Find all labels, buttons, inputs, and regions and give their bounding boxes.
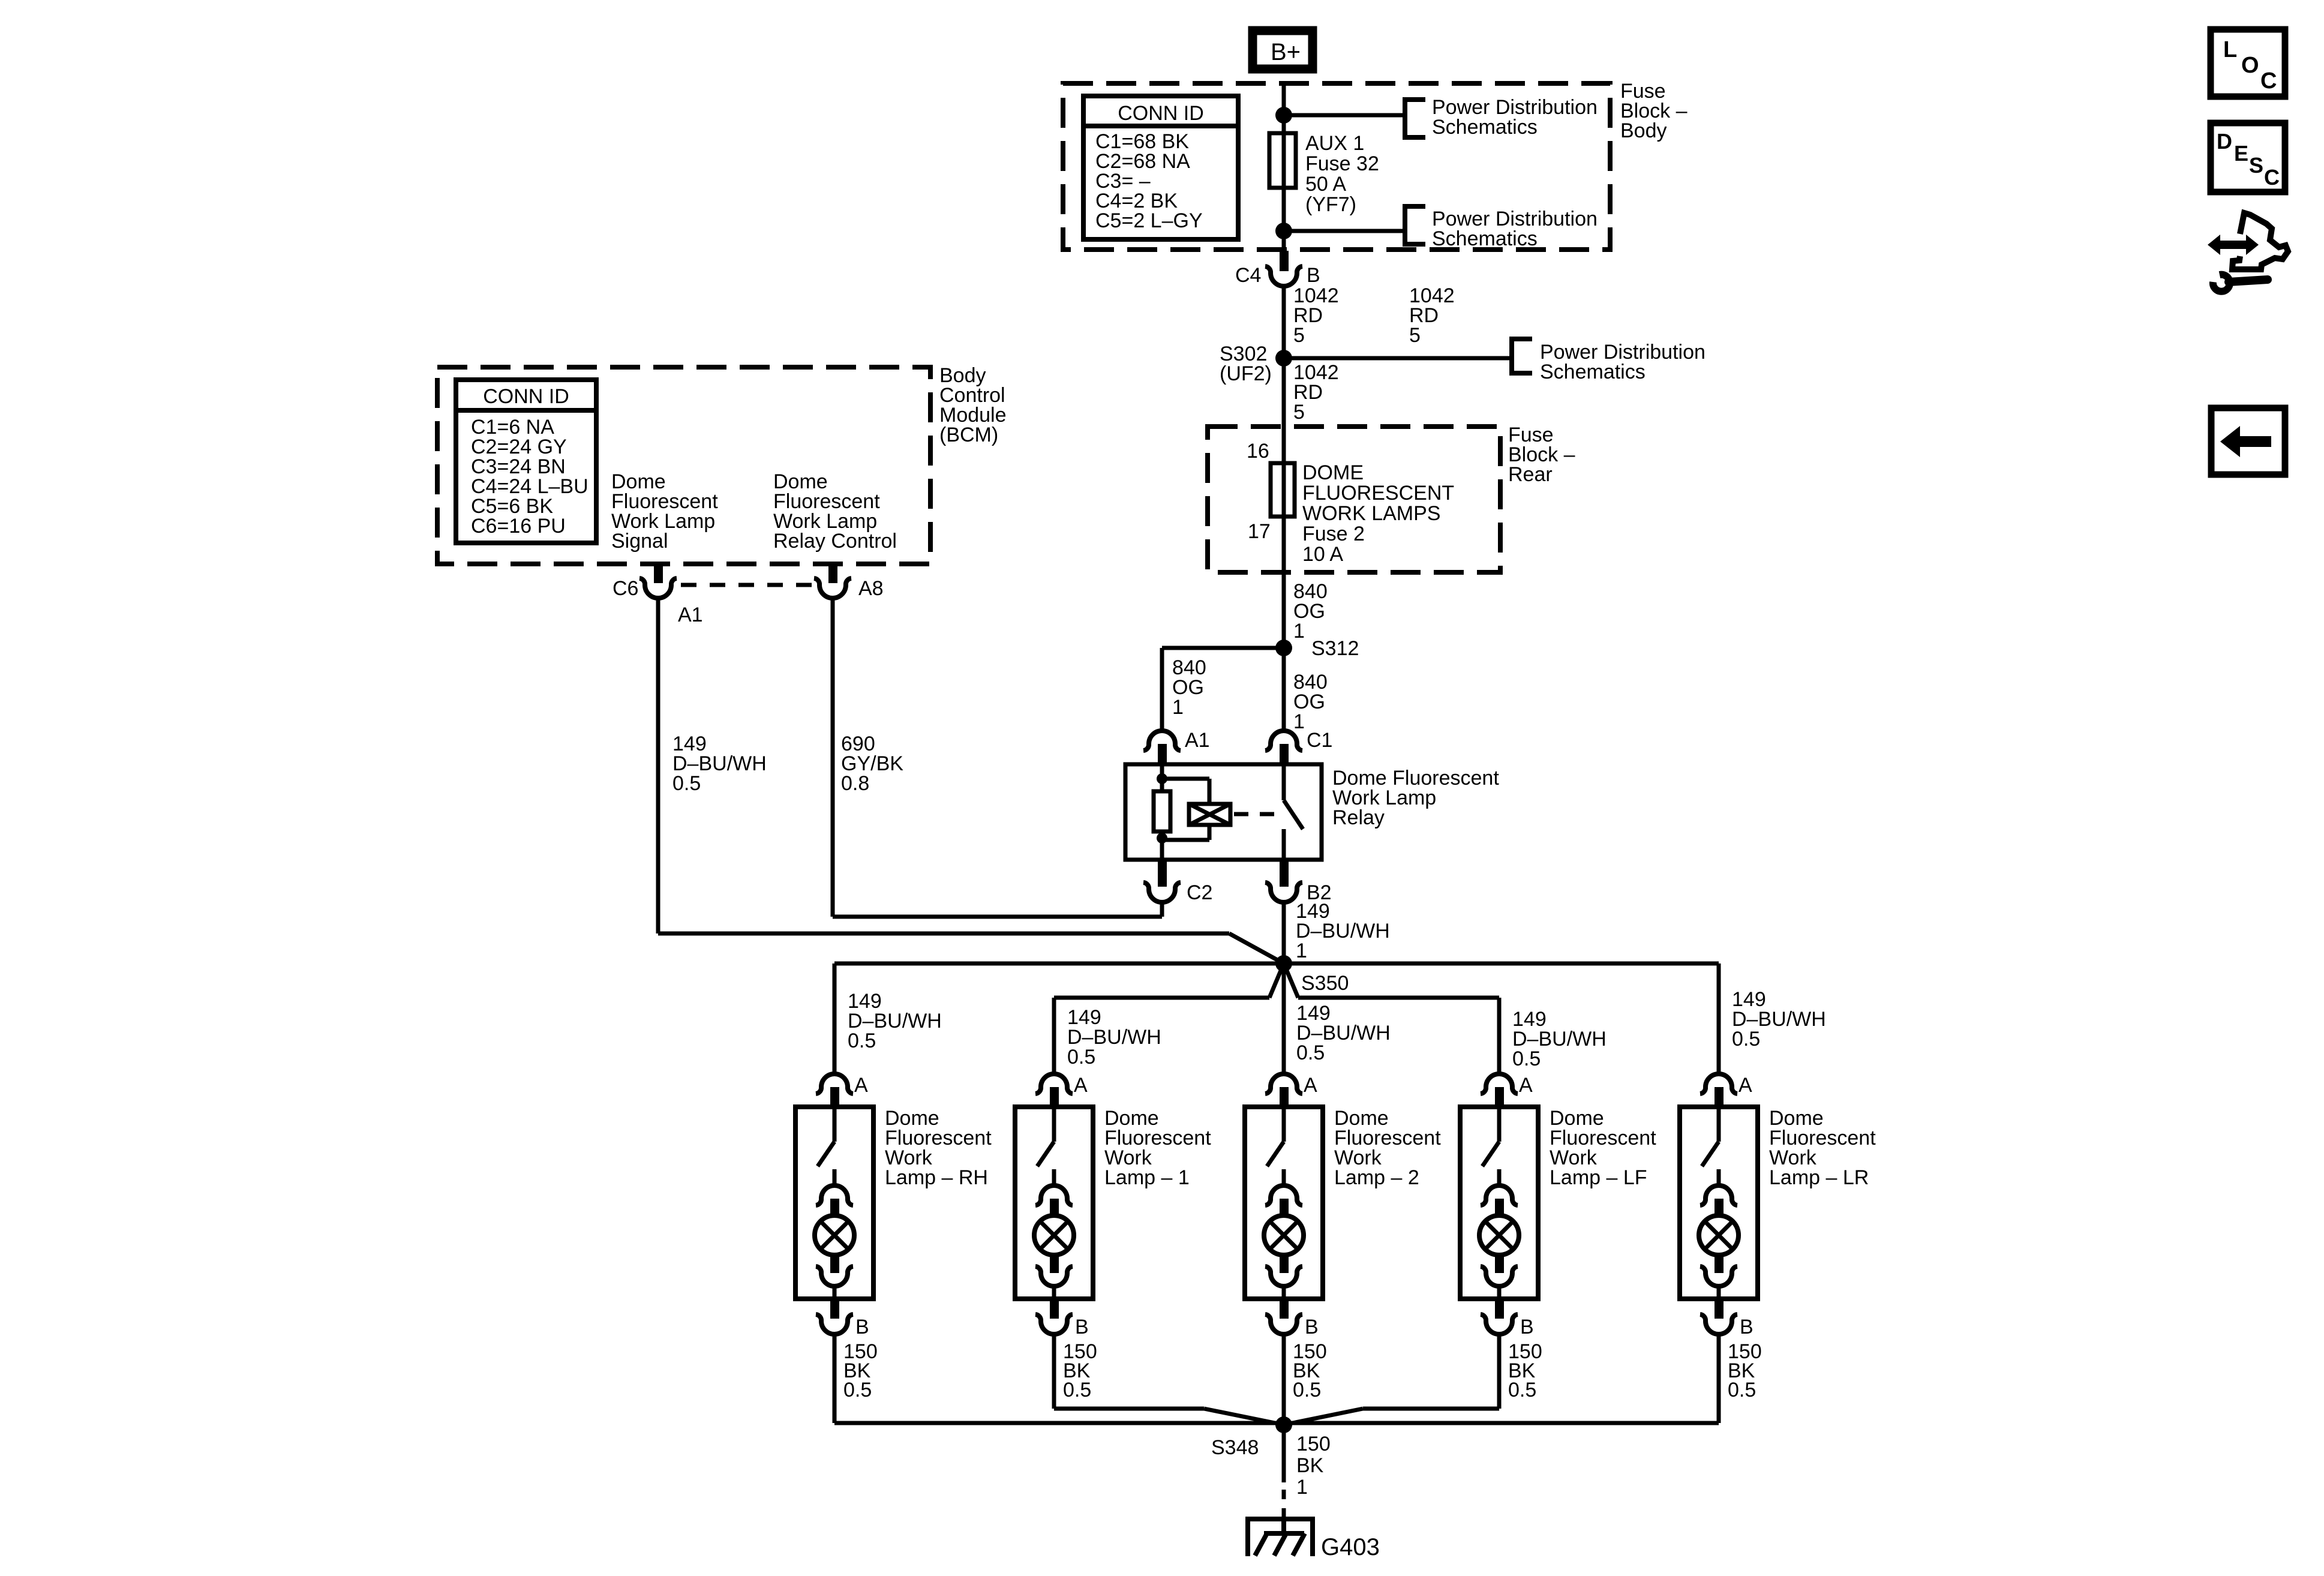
wire 1042 RD: C4 to S302 xyxy=(1282,286,1286,358)
svg-text:B: B xyxy=(1307,264,1320,287)
label: dome fluorescent work lamp relay xyxy=(1332,767,1499,829)
label: wire 150 BK 0.5 (lamp LR) xyxy=(1728,1340,1762,1401)
svg-text:Relay Control: Relay Control xyxy=(773,530,897,553)
svg-text:0.5: 0.5 xyxy=(1067,1046,1095,1068)
wire: lamp LR to ground bus xyxy=(1717,1334,1721,1423)
svg-text:5: 5 xyxy=(1293,324,1305,347)
label: wire 1042 RD 5 (below S302) xyxy=(1293,361,1339,424)
svg-text:0.5: 0.5 xyxy=(848,1029,876,1052)
label: B2 xyxy=(1307,881,1332,904)
label: S348 xyxy=(1211,1436,1259,1459)
svg-text:17: 17 xyxy=(1248,520,1271,543)
svg-text:WORK LAMPS: WORK LAMPS xyxy=(1302,502,1440,525)
dashed actuator link xyxy=(1234,812,1278,816)
svg-text:E: E xyxy=(2234,141,2248,166)
svg-text:0.5: 0.5 xyxy=(672,772,701,795)
label: pin A (lamp 2) xyxy=(1304,1074,1317,1097)
icon: harness double arrow xyxy=(2208,235,2259,255)
svg-text:1: 1 xyxy=(1293,620,1305,643)
svg-text:Lamp – LF: Lamp – LF xyxy=(1550,1166,1647,1189)
svg-text:Schematics: Schematics xyxy=(1540,361,1646,383)
node: relay coil bottom junction xyxy=(1157,833,1167,843)
svg-text:O: O xyxy=(2241,53,2259,78)
relay K: dome fluorescent work lamp relay box xyxy=(1125,764,1322,860)
label: A1 xyxy=(1185,729,1210,752)
label: pin B (lamp LF) xyxy=(1520,1316,1534,1338)
label: wire 840 OG 1 (right branch) xyxy=(1293,671,1328,733)
svg-text:B: B xyxy=(1305,1316,1319,1338)
label: S350 xyxy=(1301,972,1349,995)
fuse F32 AUX 1 xyxy=(1269,133,1296,188)
label: wire 840 OG 1 (above S312) xyxy=(1293,580,1328,643)
label: dome fluorescent work lamps fuse 2 xyxy=(1302,461,1454,566)
svg-text:Fuse 2: Fuse 2 xyxy=(1302,523,1365,545)
label: wire 840 OG 1 (left branch) xyxy=(1172,656,1206,719)
wire: to power distribution schematics (upper) xyxy=(1284,113,1405,118)
wire 149 D-BU/WH: relay B2 to S350 xyxy=(1282,902,1286,963)
label: pin B xyxy=(1307,264,1320,287)
svg-text:AUX 1: AUX 1 xyxy=(1305,132,1364,155)
svg-text:Schematics: Schematics xyxy=(1432,227,1538,250)
svg-text:A: A xyxy=(1739,1074,1752,1097)
fuse block body (dashed box) xyxy=(1063,83,1610,250)
node: relay coil top junction xyxy=(1157,773,1167,784)
svg-text:B: B xyxy=(1075,1316,1089,1338)
splice S350 xyxy=(1275,955,1292,972)
svg-text:C6: C6 xyxy=(612,577,638,600)
wire through fuse F2 xyxy=(1282,463,1286,517)
svg-text:16: 16 xyxy=(1247,440,1269,463)
svg-text:C1: C1 xyxy=(1307,729,1332,752)
wire 150 BK: S348 to G403 xyxy=(1282,1425,1286,1518)
connector ID table (fuse block body) xyxy=(1083,96,1238,239)
relay switch contact xyxy=(1284,766,1303,858)
label: pin B (lamp 2) xyxy=(1305,1316,1319,1338)
label: power distribution schematics (S302) xyxy=(1540,341,1706,383)
wire: lamp RH to ground bus xyxy=(833,1334,837,1423)
wire: S302 to power distribution schematics xyxy=(1284,356,1512,361)
connector C4 pin B xyxy=(1265,251,1302,286)
svg-text:10 A: 10 A xyxy=(1302,543,1343,566)
label: S302 (UF2) xyxy=(1220,343,1272,385)
svg-text:150: 150 xyxy=(1296,1433,1331,1455)
wire: branch to lamp LF xyxy=(1284,963,1499,1074)
label: pin B (lamp 1) xyxy=(1075,1316,1089,1338)
wire: main bus to lamps RH and LR xyxy=(834,962,1719,966)
svg-text:G403: G403 xyxy=(1321,1534,1380,1560)
svg-text:Signal: Signal xyxy=(611,530,668,553)
svg-text:0.8: 0.8 xyxy=(841,772,869,795)
label: wire 149 D-BU/WH 0.5 (lamp branch x=2887) xyxy=(1732,988,1826,1050)
svg-text:C6=16 PU: C6=16 PU xyxy=(471,515,566,538)
label: power distribution schematics (upper) xyxy=(1432,96,1598,139)
svg-text:C2: C2 xyxy=(1187,881,1212,904)
fuse block rear (dashed box) xyxy=(1208,427,1500,572)
svg-text:B: B xyxy=(1520,1316,1534,1338)
dashed connector link C6-A8 xyxy=(681,583,816,587)
splice S348 xyxy=(1275,1416,1292,1433)
svg-text:A: A xyxy=(1074,1074,1088,1097)
label: wire 1042 RD 5 (right) xyxy=(1409,284,1455,347)
wire: lamp 2 to S348 xyxy=(1282,1334,1286,1425)
lamp E: dome fluorescent work lamp - 1 xyxy=(1015,1074,1093,1334)
body control module BCM (dashed box) xyxy=(437,367,930,564)
fuse F2 dome fluorescent work lamps xyxy=(1271,463,1295,517)
svg-text:B+: B+ xyxy=(1271,39,1301,65)
svg-text:1: 1 xyxy=(1172,696,1184,719)
ground G403 xyxy=(1248,1517,1313,1556)
svg-text:C5=2 L–GY: C5=2 L–GY xyxy=(1095,209,1203,232)
svg-text:CONN ID: CONN ID xyxy=(1118,102,1204,125)
label: pin B (lamp LR) xyxy=(1740,1316,1753,1338)
wire: resistor bottom xyxy=(1160,831,1164,858)
node: junction to lower power distribution xyxy=(1275,223,1292,239)
label: wire 690 GY/BK 0.8 xyxy=(841,733,903,795)
label: dome fluorescent work lamp - RH xyxy=(885,1107,992,1189)
off-page bracket (lower power distribution) xyxy=(1405,206,1425,244)
svg-text:C: C xyxy=(2260,68,2277,94)
svg-text:DOME: DOME xyxy=(1302,461,1364,484)
svg-text:A: A xyxy=(1304,1074,1317,1097)
label: wire 149 D-BU/WH 1 xyxy=(1296,900,1390,962)
icon: LOC box xyxy=(2211,29,2285,97)
svg-text:0.5: 0.5 xyxy=(1508,1379,1536,1401)
splice S302 xyxy=(1275,350,1292,367)
label: body control module (BCM) xyxy=(939,364,1007,446)
svg-text:0.5: 0.5 xyxy=(1296,1041,1325,1064)
wire 840 OG: fuse 2 to S312 xyxy=(1282,517,1286,648)
wire 149 D-BU/WH: BCM C6 signal to S350 xyxy=(658,598,1284,963)
lamp E: dome fluorescent work lamp - LF xyxy=(1460,1074,1538,1334)
label: C1 xyxy=(1307,729,1332,752)
label: wire 1042 RD 5 (left) xyxy=(1293,284,1339,347)
label: wire 150 BK 0.5 (lamp RH) xyxy=(843,1340,878,1401)
svg-text:S312: S312 xyxy=(1311,637,1359,660)
svg-text:Lamp – 2: Lamp – 2 xyxy=(1334,1166,1419,1189)
icon: back arrow box xyxy=(2211,408,2285,475)
wire: riser to lamp 2 xyxy=(1282,963,1286,1074)
label: A1 (harness side) xyxy=(678,604,703,626)
label: wire 150 BK 0.5 (lamp 2) xyxy=(1293,1340,1327,1401)
label: AUX 1 fuse value xyxy=(1305,132,1379,216)
svg-text:(BCM): (BCM) xyxy=(939,424,998,446)
svg-text:0.5: 0.5 xyxy=(843,1379,872,1401)
label: wire 149 D-BU/WH 0.5 (BCM signal) xyxy=(672,733,767,795)
lamp E: dome fluorescent work lamp - 2 xyxy=(1245,1074,1323,1334)
svg-text:C: C xyxy=(2264,165,2280,190)
label: pin A (lamp 1) xyxy=(1074,1074,1088,1097)
wire: ground bus to S348 xyxy=(834,1421,1719,1425)
connector pin C1 of relay xyxy=(1265,731,1302,766)
splice S312 xyxy=(1275,640,1292,656)
label: wire 150 BK 0.5 (lamp 1) xyxy=(1063,1340,1097,1401)
relay coil (box with X) xyxy=(1189,804,1230,825)
svg-text:Lamp – RH: Lamp – RH xyxy=(885,1166,988,1189)
label: pin A (lamp RH) xyxy=(854,1074,868,1097)
svg-text:A: A xyxy=(1519,1074,1533,1097)
svg-text:0.5: 0.5 xyxy=(1728,1379,1756,1401)
svg-text:D: D xyxy=(2217,129,2232,154)
svg-text:CONN ID: CONN ID xyxy=(483,385,569,408)
svg-text:A1: A1 xyxy=(678,604,703,626)
node: junction to top power distribution xyxy=(1275,107,1292,124)
label: S312 xyxy=(1311,637,1359,660)
svg-text:L: L xyxy=(2223,37,2237,62)
svg-text:B: B xyxy=(1740,1316,1753,1338)
connector ID table (BCM) xyxy=(456,380,596,543)
wire 840 OG: S312 to relay A1 xyxy=(1162,648,1284,731)
connector pin C2 of relay xyxy=(1143,860,1181,902)
label: fuse block - body xyxy=(1620,80,1688,142)
svg-text:A8: A8 xyxy=(858,577,884,600)
svg-text:0.5: 0.5 xyxy=(1063,1379,1091,1401)
svg-text:1: 1 xyxy=(1296,939,1307,962)
svg-text:D–BU/WH: D–BU/WH xyxy=(1296,920,1390,942)
svg-text:S: S xyxy=(2249,153,2263,178)
label: A8 xyxy=(858,577,884,600)
svg-text:C4: C4 xyxy=(1235,264,1261,287)
label: fuse block - rear xyxy=(1508,424,1575,486)
connector pin A1 of relay xyxy=(1143,731,1181,766)
wire 1042 RD: S302 to rear fuse block xyxy=(1282,358,1286,463)
svg-text:0.5: 0.5 xyxy=(1293,1379,1321,1401)
label: wire 149 D-BU/WH 0.5 (lamp branch x=1779) xyxy=(1067,1006,1161,1068)
svg-text:50 A: 50 A xyxy=(1305,173,1346,196)
svg-text:Relay: Relay xyxy=(1332,806,1385,829)
label: dome fluorescent work lamp signal xyxy=(611,470,718,553)
label: dome fluorescent work lamp - LF xyxy=(1550,1107,1656,1189)
label: power distribution schematics (lower) xyxy=(1432,208,1598,250)
wire: to power distribution schematics (lower) xyxy=(1284,229,1405,233)
svg-text:Body: Body xyxy=(1620,119,1667,142)
label: pin A (lamp LF) xyxy=(1519,1074,1533,1097)
svg-text:0.5: 0.5 xyxy=(1512,1047,1541,1070)
svg-text:BK: BK xyxy=(1296,1454,1324,1477)
svg-text:S350: S350 xyxy=(1301,972,1349,995)
label: wire 150 BK 1 xyxy=(1296,1433,1331,1499)
icon: wrench xyxy=(2213,275,2268,292)
connector pin A8 of BCM xyxy=(814,563,851,598)
label: wire 149 D-BU/WH 0.5 (lamp branch x=2521) xyxy=(1512,1008,1607,1070)
label: pin 16 xyxy=(1247,440,1269,463)
label: G403 xyxy=(1321,1534,1380,1560)
wire 840 OG: S312 to relay C1 xyxy=(1282,648,1286,731)
label: dome fluorescent work lamp - 1 xyxy=(1104,1107,1211,1189)
svg-text:1: 1 xyxy=(1293,710,1305,733)
wire: riser to lamp LR xyxy=(1717,963,1721,1074)
svg-text:Rear: Rear xyxy=(1508,463,1553,486)
svg-text:1: 1 xyxy=(1296,1476,1308,1499)
svg-text:Lamp – LR: Lamp – LR xyxy=(1769,1166,1869,1189)
icon: vehicle outline xyxy=(2232,213,2288,269)
svg-text:Lamp – 1: Lamp – 1 xyxy=(1104,1166,1190,1189)
off-page bracket (upper power distribution) xyxy=(1405,100,1425,137)
svg-text:(YF7): (YF7) xyxy=(1305,193,1356,216)
svg-text:Fuse 32: Fuse 32 xyxy=(1305,152,1379,175)
label: C6 xyxy=(612,577,638,600)
label: dome fluorescent work lamp - 2 xyxy=(1334,1107,1441,1189)
icon: DESC box xyxy=(2211,123,2285,192)
lamp E: dome fluorescent work lamp - LR xyxy=(1680,1074,1758,1334)
label: pin B (lamp RH) xyxy=(855,1316,869,1338)
svg-text:(UF2): (UF2) xyxy=(1220,362,1272,385)
wire: branch to lamp 1 xyxy=(1054,963,1284,1074)
label: dome fluorescent work lamp - LR xyxy=(1769,1107,1876,1189)
lamp E: dome fluorescent work lamp - RH xyxy=(795,1074,873,1334)
connector pin C6 of BCM xyxy=(639,563,677,598)
svg-text:0.5: 0.5 xyxy=(1732,1028,1760,1050)
relay coil feed wire xyxy=(1160,766,1164,791)
label: wire 149 D-BU/WH 0.5 (lamp branch x=2161) xyxy=(1296,1002,1391,1064)
svg-text:B: B xyxy=(855,1316,869,1338)
svg-text:S348: S348 xyxy=(1211,1436,1259,1459)
label: C4 xyxy=(1235,264,1261,287)
off-page bracket (S302 power distribution) xyxy=(1512,339,1532,373)
wire: B+ trunk through fuse AUX 1 xyxy=(1282,85,1286,251)
label: wire 149 D-BU/WH 0.5 (lamp branch x=1413) xyxy=(848,990,942,1052)
label: pin 17 xyxy=(1248,520,1271,543)
power symbol B+ xyxy=(1253,31,1313,69)
svg-text:Schematics: Schematics xyxy=(1432,116,1538,139)
label: pin A (lamp LR) xyxy=(1739,1074,1752,1097)
label: dome fluorescent work lamp relay control xyxy=(773,470,897,553)
connector pin B2 of relay xyxy=(1265,860,1302,902)
label: C2 xyxy=(1187,881,1212,904)
resistor (relay suppression) xyxy=(1154,791,1170,831)
wire: coil parallel branch xyxy=(1162,779,1209,840)
svg-text:A1: A1 xyxy=(1185,729,1210,752)
svg-text:5: 5 xyxy=(1293,401,1305,424)
wire: lamp 1 to S348 xyxy=(1054,1334,1284,1425)
wire: riser to lamp RH xyxy=(833,963,837,1074)
svg-text:5: 5 xyxy=(1409,324,1421,347)
svg-text:FLUORESCENT: FLUORESCENT xyxy=(1302,482,1454,505)
svg-text:A: A xyxy=(854,1074,868,1097)
wire: lamp LF to S348 xyxy=(1284,1334,1499,1425)
wire 690 GY/BK: BCM A8 to relay C2 xyxy=(833,598,1162,917)
label: wire 150 BK 0.5 (lamp LF) xyxy=(1508,1340,1542,1401)
